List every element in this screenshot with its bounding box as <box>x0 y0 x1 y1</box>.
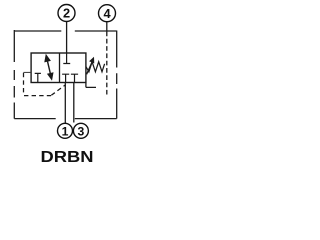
svg-text:4: 4 <box>103 6 111 21</box>
svg-text:3: 3 <box>78 124 85 138</box>
svg-text:2: 2 <box>63 6 70 21</box>
svg-text:DRBN: DRBN <box>41 149 94 166</box>
svg-text:1: 1 <box>62 124 69 138</box>
